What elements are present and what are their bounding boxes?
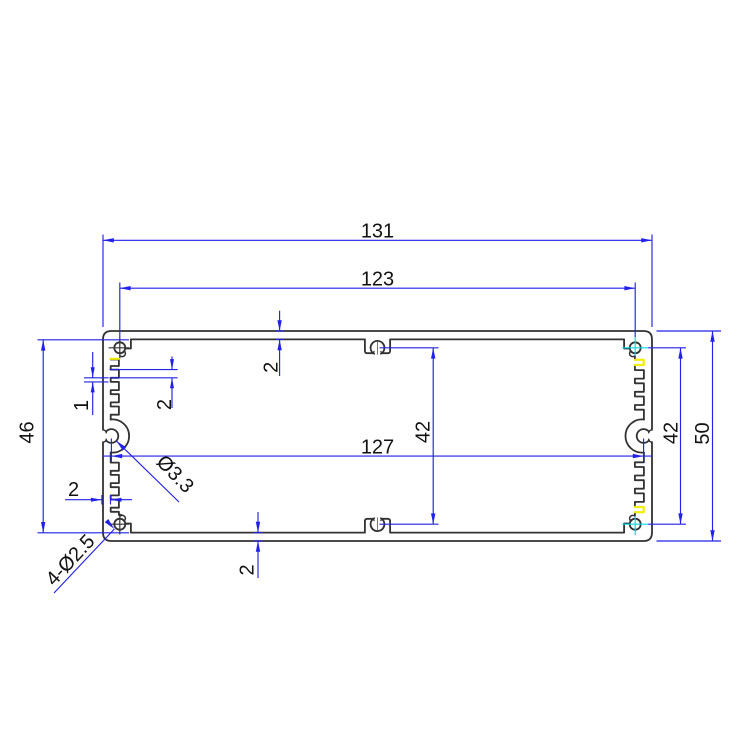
svg-text:46: 46 [16,421,38,443]
dim 50 line [712,331,714,541]
top channel screw hole (open bottom) [371,341,385,354]
svg-text:42: 42 [412,421,434,443]
svg-text:2: 2 [68,479,79,501]
dim 2 left wall extension ticks [101,495,103,505]
leader diameter 3.3 [116,441,179,502]
right mid screw hole (open right) [637,429,649,443]
bottom channel stub curls [372,519,382,521]
corner screw boss hole [630,519,641,530]
dim 127 line [103,455,652,457]
top inner wall with center screw channel [131,339,624,353]
svg-text:131: 131 [361,221,394,243]
svg-text:123: 123 [361,268,394,290]
dim 2 top wall [279,311,281,331]
yellow mark left upper fin [110,358,119,360]
center mark top-right boss (cyan) [622,347,648,349]
dim 131 extension lines [102,235,104,328]
svg-text:1: 1 [71,400,93,411]
bottom inner wall with center screw channel [131,519,624,533]
svg-text:50: 50 [692,422,714,444]
dim 2 bottom wall [257,512,259,533]
right wall mid hump [625,419,643,452]
dim 42 middle line [432,348,434,524]
center mark bottom-left boss (dark) [109,523,130,525]
dim 2 fin pitch lines and arrows [171,357,173,370]
yellow mark right lower fin [635,507,644,512]
corner boss tail curl [630,515,635,521]
left wall fins upper [111,360,119,420]
dim 50 extension lines [657,330,722,332]
corner boss tail curl [630,351,635,357]
dim 46 extension lines [38,339,130,341]
center tick bottom channel [377,518,379,531]
dim 127 extension lines [110,439,112,462]
dim 1 fin gap extension lines [84,377,109,379]
top channel stub curls [372,351,382,353]
corner boss tail curl [120,515,125,521]
right wall fin stub lower [634,512,636,515]
leader 4x diameter 2.5 [54,529,114,593]
corner boss tail curl [120,351,125,357]
left wall mid hump [111,419,129,452]
corner screw boss hole [114,342,125,353]
dim 123 line [120,287,635,289]
corner boss step [624,524,630,533]
dim 1 fin gap lines and arrows [92,352,94,378]
dim 42 right line [680,348,682,524]
corner screw boss hole [630,342,641,353]
svg-text:2: 2 [260,362,282,373]
right slot opening lips [649,430,652,442]
corner boss step [125,524,131,533]
svg-text:2: 2 [154,399,176,410]
dim 2 left wall arrows [65,499,102,501]
svg-text:2: 2 [237,564,259,575]
dim 42 right extension lines [648,347,686,349]
corner screw boss hole [114,519,125,530]
dim 2 fin pitch extension lines [110,369,178,371]
left wall fins lower [111,453,122,516]
corner boss step [125,339,131,348]
outer shell of extrusion profile [103,331,652,541]
center mark bottom-right boss (cyan) [622,523,648,525]
right wall fin stub upper [634,357,636,360]
dim 42 middle extension lines [380,347,439,349]
dim 131 line [103,239,652,241]
left mid screw hole (open left) [106,429,118,443]
bottom channel screw hole (open top) [371,518,385,531]
left slot opening lips [103,430,106,442]
right wall fins upper [635,365,644,419]
right wall fins lower [635,453,644,507]
svg-text:42: 42 [660,422,682,444]
center mark top-left boss (dark) [109,347,130,349]
yellow mark right upper fin [635,360,644,365]
corner boss step [624,339,630,348]
svg-text:127: 127 [361,436,394,458]
center tick top channel [377,342,379,355]
dim 46 line [42,340,44,533]
dim 123 extension lines [119,283,121,339]
